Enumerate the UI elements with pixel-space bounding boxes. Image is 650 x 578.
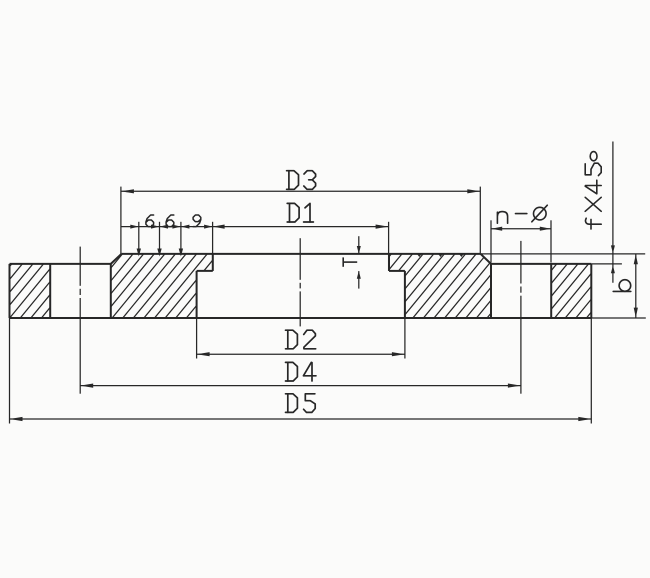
dimension D3	[121, 171, 480, 254]
hatching: left outer ring section	[0, 260, 153, 320]
dimension D2	[197, 318, 405, 359]
centerline: left bolt hole axis	[79, 247, 81, 394]
dimension T (socket depth)	[343, 236, 361, 288]
hatching: left hub section	[47, 250, 327, 320]
dimension D5 (outside diameter)	[10, 318, 592, 424]
centerline: right bolt hole axis	[520, 241, 522, 394]
hatching: right hub section	[326, 250, 606, 320]
hatching: right outer ring section	[489, 260, 650, 320]
flange outline	[10, 254, 592, 318]
dimension fX45 (chamfer)	[481, 142, 646, 283]
dimension n-ø (bolt holes)	[491, 205, 551, 262]
centerline: main axis	[299, 238, 301, 326]
dimension D4 (bolt circle)	[80, 362, 521, 387]
phantom tick arrowheads on hub top (right)	[417, 253, 465, 257]
dimension b (flange thickness)	[591, 254, 646, 318]
dimension D1 with chained 6/6/9	[121, 203, 389, 271]
